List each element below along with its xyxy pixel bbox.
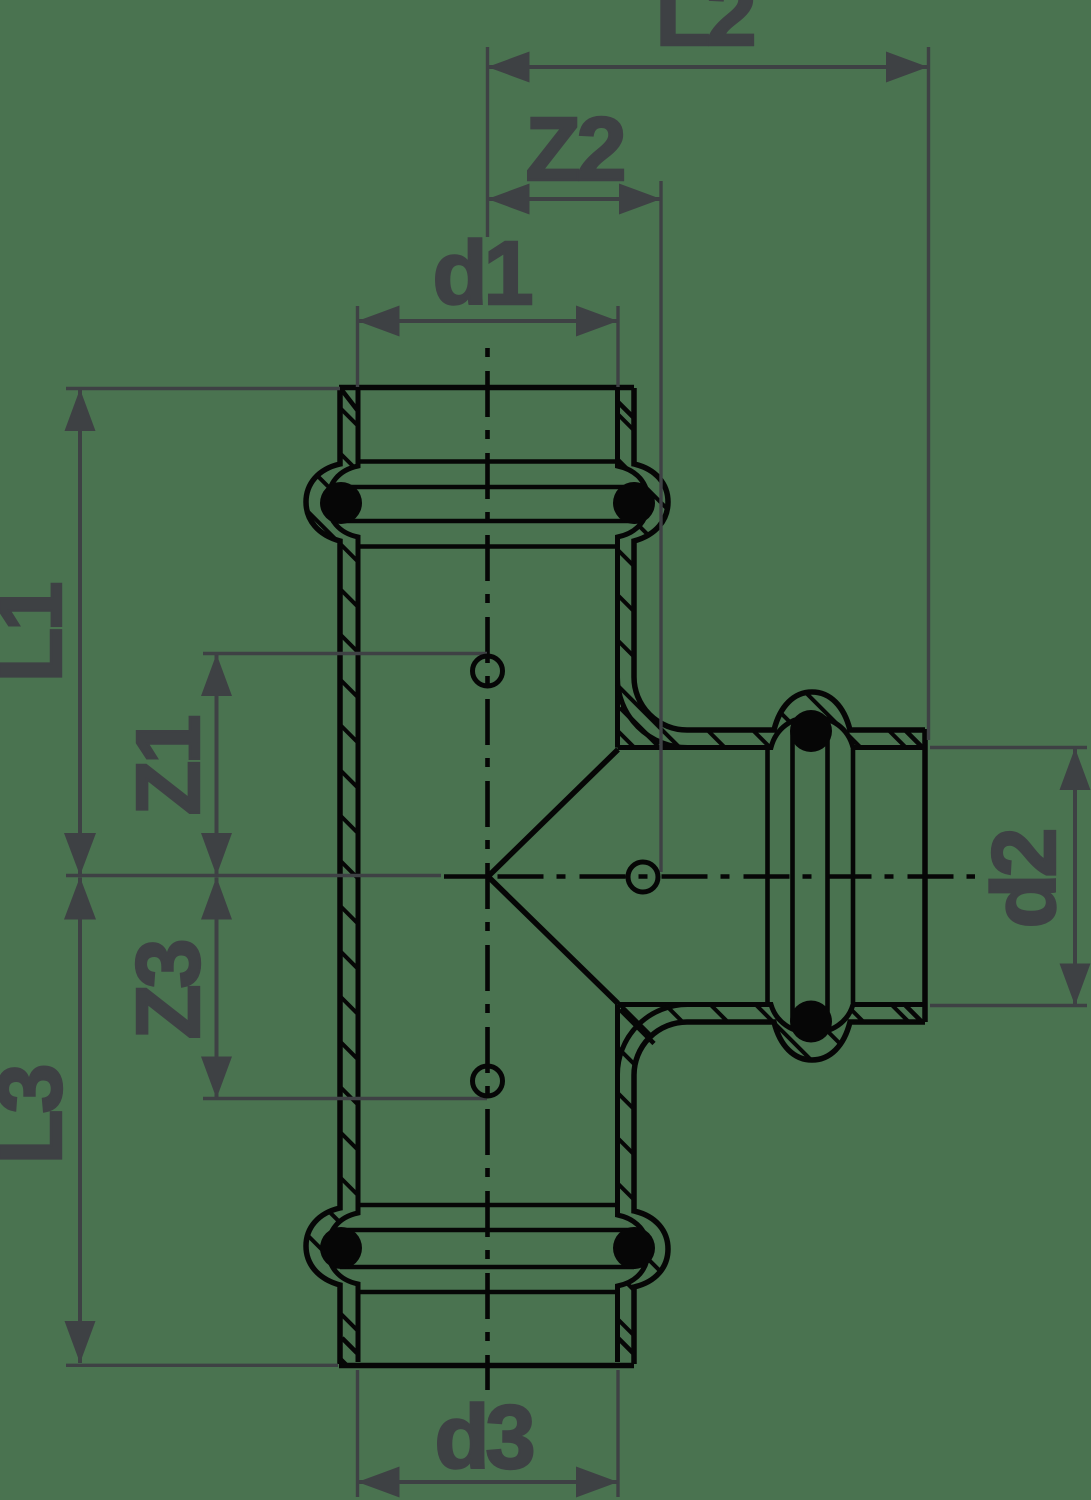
fitting inner line: right inner wall lower <box>618 1005 649 1363</box>
centerline vertical (pipe axis) <box>485 338 490 1390</box>
fitting outline: left outer wall with press beads <box>306 388 340 1364</box>
fitting inner line: branch bottom inner with bead groove <box>618 1005 926 1034</box>
socket end line top <box>358 544 618 549</box>
dimension line L1 <box>64 389 96 876</box>
o-ring branch bottom <box>790 1001 832 1043</box>
socket groove line top b <box>340 519 634 524</box>
svg-text:L1: L1 <box>0 584 81 683</box>
hatch band right wall lower and branch bottom wall <box>618 1005 926 1365</box>
fitting inner line: left inner wall <box>328 390 358 1362</box>
dimension line L2 <box>488 52 929 83</box>
hatch band left wall lower half <box>306 876 358 1364</box>
socket groove line branch a <box>825 731 830 1021</box>
hatch band right wall upper and branch top wall <box>618 388 926 748</box>
svg-text:d3: d3 <box>434 1388 532 1488</box>
centerline horizontal (branch axis) solid piece at crotch <box>444 874 488 879</box>
extension line Z1 top (o-ring plane) <box>203 652 487 655</box>
extension line d1 left <box>356 306 359 387</box>
reference circle on pipe axis lower <box>473 1066 503 1096</box>
svg-text:Z1: Z1 <box>119 717 219 816</box>
dimension line Z3 <box>201 877 232 1099</box>
fitting outline: right outer wall lower, shoulder fillet, branch bottom outer with bead <box>634 1022 925 1364</box>
extension line d3 left <box>356 1370 359 1497</box>
hatch band left wall upper half <box>306 388 358 876</box>
fitting inner line: right inner wall upper <box>618 390 649 748</box>
extension line middle (branch axis plane) <box>66 874 441 877</box>
svg-text:L3: L3 <box>0 1067 81 1165</box>
corner web slash lower <box>620 1010 654 1044</box>
dimension line L3 <box>64 877 96 1363</box>
o-ring bottom left <box>320 1227 362 1269</box>
socket end line branch <box>765 749 770 1003</box>
extension line for L2 left (pipe axis) <box>486 47 489 237</box>
fitting inner line: branch top inner with bead groove <box>618 717 926 748</box>
svg-text:Z2: Z2 <box>525 100 623 200</box>
inner fillet arc lower shoulder <box>617 1005 687 1076</box>
dimension line d2 <box>1060 748 1091 1006</box>
o-ring bottom right <box>613 1227 655 1269</box>
extension line d2 bottom <box>930 1004 1087 1007</box>
inner fillet arc upper shoulder <box>618 678 688 748</box>
o-ring top left <box>320 482 362 524</box>
dimension line d1 <box>358 306 619 337</box>
mouth corner chamfer marks branch <box>906 731 922 747</box>
socket stop line top mouth <box>358 459 618 464</box>
socket end line bottom <box>358 1203 618 1208</box>
dimension line d3 <box>358 1467 619 1498</box>
dimension line Z1 <box>201 654 232 876</box>
svg-text:d1: d1 <box>432 224 531 324</box>
mouth corner chamfer marks top <box>341 389 358 411</box>
socket groove line bottom b <box>340 1228 634 1233</box>
fitting outline: right outer wall upper, shoulder fillet, branch top outer with bead <box>634 388 925 730</box>
extension line d1 right <box>616 306 619 387</box>
svg-text:L2: L2 <box>655 0 753 65</box>
extension line top (mouth plane) <box>66 387 340 390</box>
svg-text:Z3: Z3 <box>119 942 219 1040</box>
extension line d3 right <box>616 1370 619 1497</box>
socket stop line branch mouth <box>851 749 856 1003</box>
socket stop line bottom mouth <box>358 1290 618 1295</box>
extension line for Z2 right (branch shoulder plane) <box>659 181 662 872</box>
crotch diagonal upper (bore intersection edge) <box>488 750 618 877</box>
reference circle on pipe axis upper <box>473 656 503 686</box>
o-ring top right <box>613 482 655 524</box>
extension line d2 top <box>930 746 1087 749</box>
extension line bottom (mouth plane) <box>66 1364 338 1367</box>
dimension line Z2 <box>488 184 662 215</box>
fitting outline: bottom mouth face <box>339 1363 634 1369</box>
svg-text:d2: d2 <box>975 831 1075 929</box>
reference circle on branch axis <box>628 862 658 892</box>
socket groove line bottom a <box>340 1265 634 1270</box>
fitting outline: branch mouth face <box>922 729 928 1022</box>
extension line Z3 bottom (o-ring plane) <box>203 1097 487 1100</box>
o-ring branch top <box>790 710 832 752</box>
extension line for L2 right (branch mouth) <box>927 47 930 740</box>
socket groove line branch b <box>790 731 795 1021</box>
corner web slash upper <box>620 708 658 746</box>
socket groove line top a <box>340 485 634 490</box>
mouth corner chamfer marks bottom <box>342 1338 357 1353</box>
crotch diagonal lower (bore intersection edge) <box>488 877 618 1004</box>
centerline horizontal (branch axis) <box>488 874 976 879</box>
fitting outline: top mouth face <box>339 385 634 391</box>
